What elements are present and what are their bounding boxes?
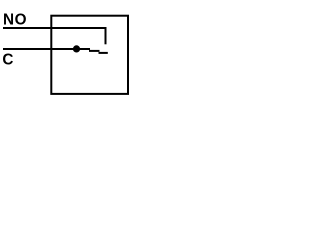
- relay contact block outline U1: [51, 16, 128, 94]
- wire NO horizontal: [3, 27, 107, 29]
- wire C horizontal: [3, 48, 77, 50]
- switch lever segment 3: [99, 52, 108, 54]
- svg-text:NO: NO: [3, 11, 27, 28]
- switch lever segment 1: [77, 48, 91, 50]
- switch lever segment 2: [89, 50, 100, 52]
- svg-text:C: C: [2, 51, 13, 68]
- wire NO vertical stub (fixed contact): [105, 27, 107, 44]
- junction dot on C wire: [73, 45, 80, 52]
